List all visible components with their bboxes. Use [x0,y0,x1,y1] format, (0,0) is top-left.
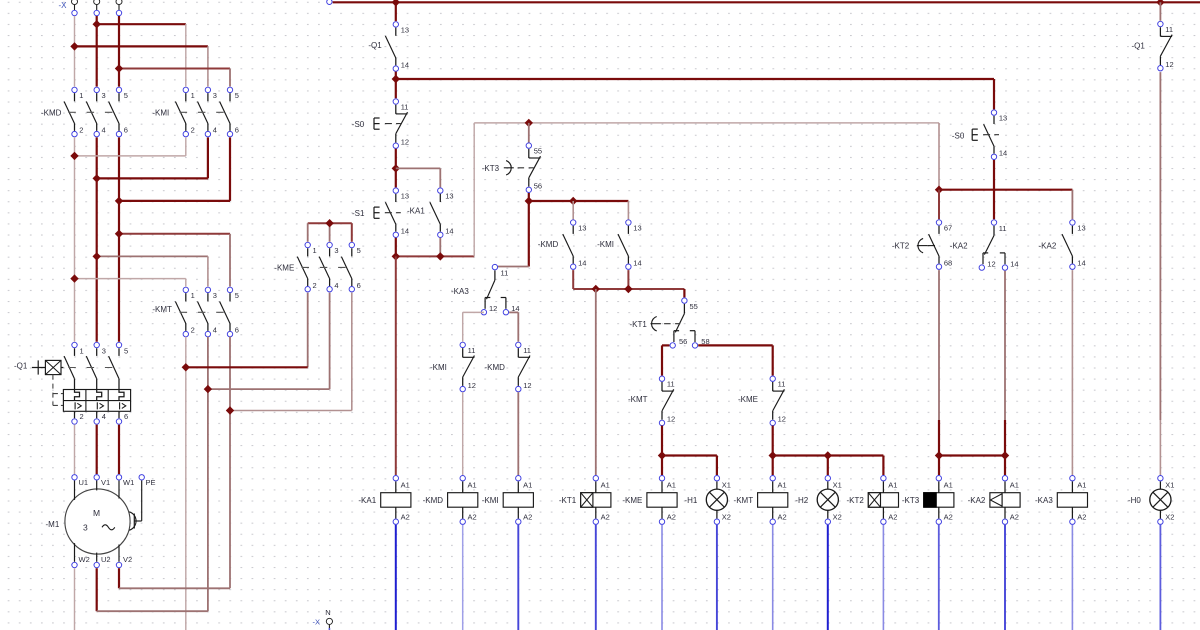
svg-text:1: 1 [80,346,84,355]
svg-text:12: 12 [489,304,497,313]
svg-text:4: 4 [213,126,217,135]
svg-text:-KA1: -KA1 [358,496,376,505]
svg-text:V1: V1 [101,478,110,487]
wire KME pin6 down [351,293,353,411]
wire Q1right-12 down to H0 [1159,72,1161,475]
breaker aux contact -Q1 11-12 (right) [1132,21,1174,71]
wire neutral below -KA2 [1004,525,1006,630]
svg-text:14: 14 [445,227,453,236]
wire Q1aux14 to S0 [395,72,397,99]
svg-text:W2: W2 [79,555,90,564]
svg-text:W1: W1 [123,478,134,487]
contactor coil -KME [622,476,677,525]
svg-text:A1: A1 [888,481,897,490]
wire motor U2 to KMT4 column [97,568,208,611]
svg-text:U1: U1 [79,478,89,487]
svg-text:2: 2 [80,412,84,421]
junction KMT1 feed [70,274,78,282]
wire KMT pin6 column down [229,337,231,589]
svg-text:56: 56 [679,337,687,346]
svg-text:11: 11 [523,346,531,355]
svg-text:-KT1: -KT1 [559,496,577,505]
svg-text:-X: -X [59,1,68,10]
wire KT1-58 to KME NC [698,345,773,375]
wire KMT6-KME6 link [230,410,352,412]
svg-text:X1: X1 [833,481,842,490]
wire L1 branch to KMI pin3 [75,46,208,86]
wire KMI pin6 link [119,137,230,201]
junction S1 bottom [392,252,400,260]
junction KMD4-KMI4 [93,174,101,182]
svg-text:13: 13 [401,192,409,201]
svg-text:14: 14 [1077,259,1085,268]
contactor contact -KMD (power, 3-pole) [41,87,128,137]
svg-text:-S0: -S0 [352,120,365,129]
wire motor W2 down [74,568,76,630]
svg-text:14: 14 [633,259,641,268]
wire KA3-12 to KMI NC [463,312,484,341]
wire neutral below -KT2 [882,525,884,630]
wire KMD pin6 down to Q1 pin5 [118,137,120,341]
svg-text:3: 3 [102,346,106,355]
wire KMT2-KME2 link [186,366,308,368]
junction KMT4 link [204,385,212,393]
junction KA1 bottom [436,252,444,260]
svg-text:3: 3 [213,91,217,100]
svg-text:55: 55 [534,147,542,156]
relay contact -KA3 11-12-14 (changeover) [451,264,520,315]
indicator lamp -H0 [1128,476,1174,525]
svg-text:14: 14 [578,259,586,268]
svg-text:X2: X2 [1165,512,1174,521]
wire KT3 rung to KA2 coil [939,454,1005,456]
svg-text:6: 6 [235,326,239,335]
wire L2 vertical to KMD pin3 [96,16,98,87]
junction L1 branch [70,42,78,50]
svg-text:-H0: -H0 [1128,496,1141,505]
wire branch to KA1 contact [396,168,441,187]
svg-text:11: 11 [778,380,786,389]
wire KME pin4 down [329,293,331,390]
wire control bus 1 to S0 right [396,79,994,109]
svg-text:-S0: -S0 [952,131,965,140]
wire KA2-14 down to KA2 coil [1004,271,1006,475]
svg-text:A1: A1 [667,481,676,490]
wire Q1 pin2 to motor U1 [74,425,76,474]
junction S1 top branch [392,164,400,172]
junction star bridge [325,219,333,227]
svg-text:-KA2: -KA2 [968,496,986,505]
svg-text:-Q1: -Q1 [14,362,28,371]
svg-text:12: 12 [987,259,995,268]
svg-text:13: 13 [999,114,1007,123]
svg-text:A1: A1 [401,481,410,490]
wire neutral below -KA3 [1071,525,1073,630]
wire neutral below -KMT [772,525,774,630]
svg-text:-KMT: -KMT [152,305,172,314]
svg-text:11: 11 [999,224,1007,233]
junction KMT coil rung [769,451,777,459]
timer coil -KT1 [559,476,611,525]
wire KMI pin4 link [97,137,208,178]
wire KT1 coil feed column [595,289,597,475]
svg-text:11: 11 [1165,25,1173,34]
wire KME NC down to KMT coil [772,426,774,475]
svg-text:5: 5 [124,91,128,100]
svg-text:-KME: -KME [738,395,758,404]
relay contact -KA2 13-14 (NO) [1039,220,1086,270]
timer contact -KT2 67-68 (NO timed) [892,220,952,270]
wire neutral below -KT3 [938,525,940,630]
wire KMT NC down to KME coil [661,426,663,475]
wire neutral below -KT1 [595,525,597,630]
svg-text:3: 3 [213,291,217,300]
wire motor V2 to KMT6 column [119,568,230,588]
contactor aux contact -KME 11-12 (NC interlock) [738,376,786,426]
junction KMT5 feed [115,230,123,238]
pushbutton -S0 (NC, stop) [352,99,409,149]
wire S0right-14 to KA2-11 [993,160,995,220]
svg-text:A1: A1 [778,481,787,490]
svg-text:-KMI: -KMI [152,108,169,117]
svg-text:1: 1 [313,246,317,255]
svg-text:14: 14 [401,227,409,236]
svg-text:3: 3 [102,91,106,100]
wire KMI aux 14 down [627,270,629,289]
svg-text:-KMI: -KMI [430,363,447,372]
svg-text:-KT2: -KT2 [846,496,864,505]
svg-text:6: 6 [357,281,361,290]
svg-text:-KMI: -KMI [597,240,614,249]
svg-text:-KMD: -KMD [538,240,559,249]
svg-text:A2: A2 [778,512,787,521]
svg-text:-KMT: -KMT [628,395,648,404]
wire KMI pin2 link [75,137,186,156]
svg-text:14: 14 [999,149,1007,158]
wire neutral below -KME [661,525,663,630]
relay contact -KA2 11-12-14 (changeover) [950,220,1019,270]
wire L1 vertical to KMD pin1 [74,16,76,87]
svg-text:-KT2: -KT2 [892,242,910,251]
wire KA2right-14 down to KA3 coil [1071,270,1073,475]
junction bus to Q1 right [1156,0,1164,7]
svg-text:4: 4 [102,126,106,135]
svg-text:6: 6 [124,412,128,421]
wire KMT4-KME4 link [208,388,330,390]
wire branch to KMT pin5 [119,234,230,287]
wire L3 vertical to KMD pin5 [118,16,120,87]
relay coil -KA2 (latching) [968,476,1020,525]
svg-text:1: 1 [191,291,195,300]
svg-text:12: 12 [667,415,675,424]
pushbutton -S1 (NO, start) [352,188,409,238]
svg-text:11: 11 [667,380,675,389]
svg-text:56: 56 [534,182,542,191]
svg-text:-KA1: -KA1 [407,206,425,215]
svg-text:55: 55 [690,302,698,311]
contactor coil -KMT [734,476,788,525]
wire seal-in rung [396,255,474,257]
wire KMD pin2 down to Q1 pin1 [74,137,76,341]
wire S1-14 down [395,238,397,257]
junction bus to Q1 aux [392,0,400,7]
svg-text:A2: A2 [944,512,953,521]
svg-text:-KME: -KME [274,263,294,272]
svg-text:1: 1 [191,91,195,100]
wire KMT pin2 column down [185,337,187,630]
timer coil -KT2 [846,476,898,525]
svg-text:A2: A2 [401,512,410,521]
svg-text:5: 5 [235,91,239,100]
contactor aux contact -KMI 13-14 [597,220,642,270]
svg-text:-Q1: -Q1 [1132,41,1146,50]
svg-text:A1: A1 [601,481,610,490]
terminal -X:N (neutral) [313,608,333,630]
contactor aux contact -KMD 13-14 [538,220,587,270]
indicator lamp -H1 [684,476,730,525]
wire S0-12 down [395,149,397,188]
svg-text:1: 1 [79,91,83,100]
wire KT3 out to KMD/KMI aux [529,200,629,202]
terminal strip -X (supply L1 L2 L3) [59,0,123,16]
svg-text:-H1: -H1 [684,496,697,505]
svg-text:A1: A1 [1010,481,1019,490]
svg-text:-KA2: -KA2 [950,242,968,251]
svg-text:A1: A1 [468,481,477,490]
wire Q1 pin4 to motor V1 [96,425,98,474]
wire link to KA3 pivot [498,266,529,268]
contactor contact -KMT (power, 3-pole) [152,287,239,337]
junction control bus 1 [392,75,400,83]
junction KMD2-KMI2 [70,152,78,160]
wire KMT pin4 column down [207,337,209,611]
wire Q1 pin6 to motor W1 [118,425,120,474]
junction H2 feed [824,451,832,459]
svg-text:-KT1: -KT1 [630,320,648,329]
wire KT2-67 stub [938,190,940,220]
svg-text:A2: A2 [888,512,897,521]
svg-text:A2: A2 [1010,512,1019,521]
svg-text:X1: X1 [722,481,731,490]
svg-text:3: 3 [334,246,338,255]
wire KA3-14 to KMD NC [509,312,518,341]
wire aux rung [573,289,684,297]
svg-text:A1: A1 [1077,481,1086,490]
svg-text:U2: U2 [101,555,111,564]
svg-text:2: 2 [79,126,83,135]
junction KT3 coil rung [935,451,943,459]
svg-text:12: 12 [468,381,476,390]
svg-text:12: 12 [1165,60,1173,69]
circuit breaker -Q1 (motor protection, 3-pole) [14,342,131,424]
wire KMD aux 13 stub [572,201,574,219]
wire timed bus [474,122,939,124]
contactor contact -KME (power, 3-pole, star) [274,242,360,292]
svg-text:68: 68 [944,259,952,268]
wire KT3-56 down [528,193,530,267]
wire neutral below -H2 [827,525,829,630]
wire neutral below -KA1 [395,525,397,630]
wire neutral below -KMD [462,525,464,630]
svg-text:11: 11 [468,346,476,355]
wire L3 branch to KMI pin5 [119,69,230,87]
svg-text:14: 14 [1010,259,1018,268]
wire KA1 coil feed [395,256,397,475]
svg-text:5: 5 [235,291,239,300]
contactor aux contact -KMI 11-12 (NC interlock) [430,342,476,392]
svg-text:-M1: -M1 [46,520,60,529]
control supply bus L [327,0,1200,5]
contactor aux contact -KMT 11-12 (NC interlock) [628,376,675,426]
svg-text:A2: A2 [1077,512,1086,521]
wire timed bus right riser [938,123,940,190]
svg-text:PE: PE [146,478,156,487]
junction KME coil rung [658,451,666,459]
wire KME pin2 down [307,293,309,368]
star-point bridge bus for -KME [308,223,352,242]
svg-text:X2: X2 [722,512,731,521]
svg-text:-X: -X [313,618,321,627]
wire neutral below -H0 [1159,525,1161,630]
wire KT2-68 down to KT3 coil [938,270,940,475]
svg-text:12: 12 [401,138,409,147]
svg-text:13: 13 [578,223,586,232]
svg-text:N: N [325,608,330,617]
relay contact -KA1 13-14 [407,188,454,238]
svg-text:4: 4 [334,281,338,290]
junction KMI aux join [624,285,632,293]
timer contact -KT1 55-56-58 (changeover, timed) [630,298,710,348]
pushbutton -S0 (NO, right section) [952,110,1007,160]
timer contact -KT3 55-56 (NC timed) [482,143,542,193]
contactor coil -KMI [482,476,534,525]
wire KME rung to H1 [662,456,717,476]
svg-text:-KT3: -KT3 [482,164,500,173]
svg-text:13: 13 [401,25,409,34]
svg-text:6: 6 [124,126,128,135]
wire L2 branch to KMI pin1 [97,24,186,86]
svg-text:X1: X1 [1165,481,1174,490]
svg-text:67: 67 [944,223,952,232]
svg-text:12: 12 [523,381,531,390]
junction KMD6-KMI6 [115,197,123,205]
svg-text:12: 12 [778,415,786,424]
svg-text:5: 5 [357,246,361,255]
svg-text:-KA3: -KA3 [1035,496,1053,505]
junction KMT3 feed [93,252,101,260]
svg-text:-S1: -S1 [352,209,365,218]
svg-text:2: 2 [191,126,195,135]
svg-text:-KMT: -KMT [734,496,754,505]
svg-text:5: 5 [124,346,128,355]
contactor contact -KMI (power, 3-pole) [152,87,239,137]
wire riser to timed bus [473,123,475,257]
wire KMI aux 13 stub [627,201,629,219]
svg-text:-KMD: -KMD [423,496,444,505]
wire KMT rung to H2 and KT2 [773,456,884,476]
wire KT3-55 stub [528,123,530,143]
svg-text:11: 11 [401,102,409,111]
relay coil -KA1 [358,476,410,525]
junction right riser [935,186,943,194]
svg-text:6: 6 [235,126,239,135]
junction KMD aux feed [569,197,577,205]
relay coil -KA3 [1035,476,1087,525]
junction KT3 feed [525,119,533,127]
svg-text:V2: V2 [123,555,132,564]
svg-text:2: 2 [191,326,195,335]
wire KMI NC down to KMD coil [462,392,464,475]
wire KMD aux 14 down [572,270,574,289]
indicator lamp -H2 [795,476,841,525]
svg-text:-KA3: -KA3 [451,287,469,296]
junction KT3 out [525,197,533,205]
motor -M1 (3-phase) [46,475,156,568]
svg-text:13: 13 [1077,223,1085,232]
junction KMT6 link [226,406,234,414]
junction L2 branch [93,20,101,28]
svg-text:M: M [93,508,100,518]
svg-text:11: 11 [501,269,509,278]
svg-text:13: 13 [445,192,453,201]
svg-text:A2: A2 [523,512,532,521]
wire KT1-56 to KMT NC [662,345,670,375]
svg-text:2: 2 [313,281,317,290]
svg-text:-Q1: -Q1 [368,41,382,50]
junction KMT2 link [182,363,190,371]
svg-text:-H2: -H2 [795,496,808,505]
breaker aux contact -Q1 13-14 [368,22,409,72]
svg-text:-KMI: -KMI [482,496,499,505]
wire neutral below -KMI [517,525,519,630]
wire KMD NC down to KMI coil [517,392,519,475]
contactor aux contact -KMD 11-12 (NC interlock) [485,342,532,392]
svg-text:A2: A2 [667,512,676,521]
wire branch to KMT pin3 [97,256,208,286]
wire branch to KMT pin1 [75,279,186,287]
svg-text:A2: A2 [468,512,477,521]
timer coil -KT3 [902,476,954,525]
wire bus to Q1 aux 13 [395,2,397,21]
svg-text:14: 14 [401,60,409,69]
contactor coil -KMD [423,476,478,525]
svg-text:-KME: -KME [622,496,642,505]
svg-text:X2: X2 [833,512,842,521]
svg-text:-KT3: -KT3 [902,496,920,505]
svg-text:4: 4 [102,412,106,421]
svg-text:A1: A1 [944,481,953,490]
wire KMD pin4 down to Q1 pin3 [96,137,98,341]
svg-text:3: 3 [83,523,88,533]
wire KA1-14 down [439,238,441,257]
junction KA2 coil feed [1001,451,1009,459]
svg-text:A2: A2 [601,512,610,521]
junction KT1 coil feed [592,285,600,293]
svg-text:4: 4 [213,326,217,335]
wire bus to Q1 right [1159,2,1161,21]
svg-text:-KMD: -KMD [41,108,62,117]
svg-text:A1: A1 [523,481,532,490]
svg-text:-KMD: -KMD [485,363,506,372]
junction L3 branch [115,64,123,72]
wire right rung [939,190,1072,220]
svg-text:-KA2: -KA2 [1039,242,1057,251]
svg-text:13: 13 [633,223,641,232]
wire neutral below -H1 [716,525,718,630]
